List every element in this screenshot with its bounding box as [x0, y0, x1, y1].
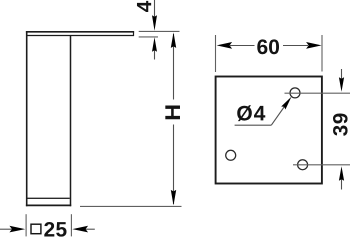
dim 4: lower arrowhead (points up) — [152, 37, 157, 52]
hole diameter label "Ø4" — [237, 105, 265, 121]
dim 60: left arrowhead (points left) — [217, 42, 233, 49]
dim 4: extension line top (shared with H) — [139, 30, 180, 32]
hole left — [226, 150, 236, 160]
dim 39: bottom arrow stem — [341, 179, 343, 190]
leg side view: bottom edge — [26, 204, 71, 206]
dim 4: upper arrowhead (points down) — [152, 15, 157, 30]
dim H: lower arrowhead (points down) — [171, 190, 176, 206]
dim 39: label "39" (rotated) — [333, 114, 348, 136]
mounting plate top view outline — [216, 77, 322, 184]
dim 60: right extension line — [321, 35, 323, 72]
leg side view: top plate right end cap — [133, 31, 135, 36]
dim 60: dimension line left segment — [230, 45, 255, 47]
dim 4: upper arrow stem — [154, 0, 156, 17]
hole top right — [290, 88, 300, 98]
dim H: dimension line upper segment — [173, 34, 175, 100]
hole bottom right — [298, 160, 308, 170]
dim 4: lower arrow stem — [154, 50, 156, 60]
dim 60: label "60" — [257, 39, 279, 54]
dim 4: label "4" (rotated) — [137, 1, 151, 12]
leg side view: top plate bottom edge — [26, 35, 134, 37]
leg side view: top plate top edge — [26, 31, 134, 33]
dim 39: top arrow stem — [341, 69, 343, 79]
dim square25: label "25" — [44, 222, 66, 237]
dim square25: right extension line — [70, 214, 72, 236]
dim square25: left arrow stem — [0, 228, 12, 230]
dim H: bottom extension line — [80, 205, 182, 207]
dim 39: bottom extension line through hole — [293, 164, 350, 166]
dim H: label "H" (rotated) — [165, 105, 180, 119]
leg side view: vertical post left edge — [26, 31, 28, 206]
dim 60: left extension line — [215, 35, 217, 72]
dim square25: square symbol — [31, 224, 41, 234]
dim 39: bottom arrowhead (points up) — [339, 166, 344, 181]
hole diameter leader diagonal — [271, 102, 288, 126]
dim 39: top arrowhead (points down) — [339, 77, 344, 92]
hole diameter leader arrowhead — [281, 97, 291, 110]
dim 39: top extension line through hole — [285, 92, 350, 94]
leg side view: post right edge — [70, 35, 72, 206]
dim 60: right arrowhead (points right) — [306, 42, 322, 49]
dim square25: left extension line — [25, 214, 27, 236]
dim square25: right arrowhead (points left) — [72, 226, 88, 233]
dim 4: extension line bottom — [139, 36, 158, 38]
dim 60: dimension line right segment — [283, 45, 308, 47]
dim square25: left arrowhead (points right) — [9, 226, 25, 233]
dim square25: right arrow stem — [86, 228, 95, 230]
hole diameter leader underline — [235, 124, 272, 126]
leg foot seam line — [28, 197, 70, 199]
dim H: dimension line lower segment — [173, 125, 175, 205]
dim H: upper arrowhead (points up) — [171, 32, 176, 48]
